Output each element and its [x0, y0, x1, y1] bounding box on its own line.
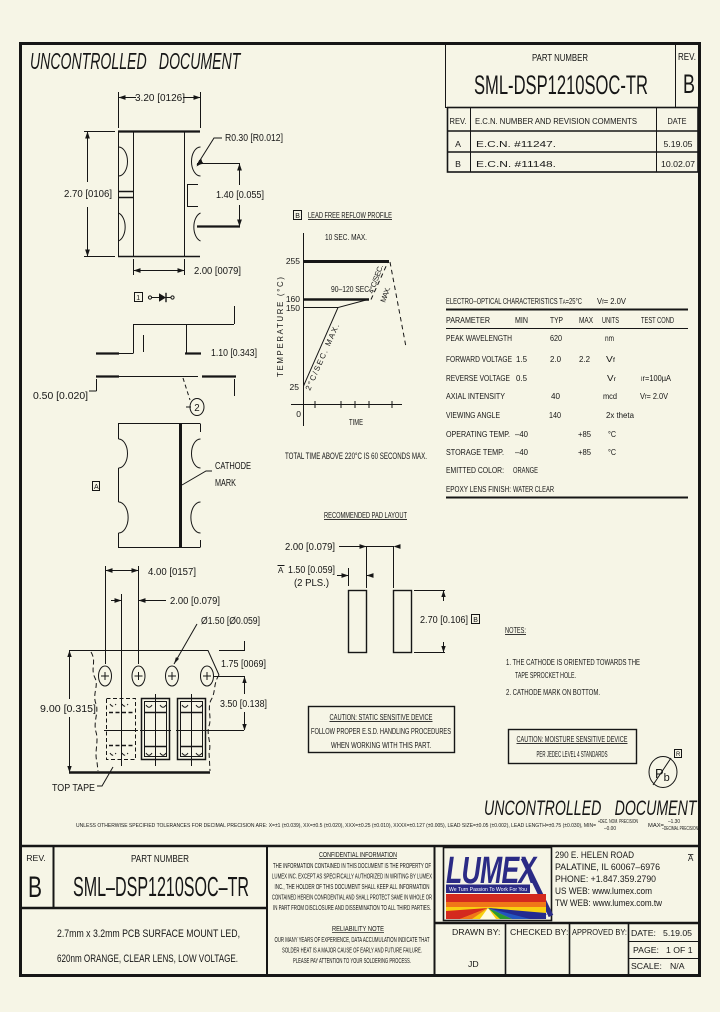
svg-text:THE INFORMATION CONTAINED IN T: THE INFORMATION CONTAINED IN THIS DOCUME… — [273, 863, 431, 870]
svg-text:5.19.05: 5.19.05 — [664, 139, 693, 149]
svg-text:1.50 [0.059]: 1.50 [0.059] — [288, 565, 335, 576]
svg-text:FORWARD VOLTAGE: FORWARD VOLTAGE — [446, 354, 512, 364]
svg-text:+85: +85 — [578, 447, 591, 457]
sprocket hole 1 — [99, 666, 112, 686]
svg-text:1 OF 1: 1 OF 1 — [666, 945, 693, 955]
svg-text:0.50 [0.020]: 0.50 [0.020] — [33, 391, 88, 402]
svg-text:UNLESS OTHERWISE SPECIFIED TOL: UNLESS OTHERWISE SPECIFIED TOLERANCES FO… — [76, 823, 597, 829]
svg-text:PART NUMBER: PART NUMBER — [532, 53, 588, 64]
svg-text:CONFIDENTIAL INFORMATION: CONFIDENTIAL INFORMATION — [319, 852, 397, 859]
svg-text:9.00 [0.315]: 9.00 [0.315] — [40, 704, 96, 715]
callout diameter 1.50 — [174, 616, 260, 664]
svg-text:VIEWING ANGLE: VIEWING ANGLE — [446, 410, 500, 420]
part number box — [446, 44, 699, 108]
svg-text:CHECKED BY:: CHECKED BY: — [510, 927, 568, 937]
svg-text:RELIABILITY NOTE: RELIABILITY NOTE — [332, 926, 384, 933]
electro-optical characteristics table — [446, 296, 688, 498]
dim 2.70 [0106] left — [64, 132, 115, 257]
tape top edge — [69, 651, 219, 676]
caution ESD box — [309, 707, 455, 753]
svg-text:1. THE CATHODE IS ORIENTED TOW: 1. THE CATHODE IS ORIENTED TOWARDS THE — [506, 657, 640, 667]
dim 1.40 [0.055] right — [197, 164, 264, 227]
svg-text:SCALE:: SCALE: — [631, 961, 662, 971]
svg-text:MARK: MARK — [215, 478, 236, 489]
svg-text:Vf: Vf — [606, 354, 615, 364]
reflow profile title — [294, 210, 393, 220]
svg-text:WATER CLEAR: WATER CLEAR — [513, 484, 554, 494]
svg-text:R: R — [676, 752, 681, 758]
svg-text:OPERATING TEMP.: OPERATING TEMP. — [446, 429, 510, 439]
svg-text:B: B — [455, 159, 461, 169]
svg-text:CATHODE: CATHODE — [215, 461, 251, 472]
right notch rect — [188, 185, 199, 207]
dim 2.00 [0.079] gap — [285, 542, 401, 588]
svg-text:TOTAL TIME ABOVE 220°C IS 60 S: TOTAL TIME ABOVE 220°C IS 60 SECONDS MAX… — [285, 451, 427, 461]
reflow chart temperature lines — [304, 262, 390, 308]
caution moisture box — [509, 730, 637, 764]
leader to balloon 2 — [183, 378, 204, 416]
svg-text:We Turn Passion To Work For Yo: We Turn Passion To Work For You — [449, 887, 527, 893]
confidential information block — [272, 852, 432, 965]
svg-text:2.7mm x 3.2mm PCB SURFACE MOUN: 2.7mm x 3.2mm PCB SURFACE MOUNT LED, — [57, 928, 240, 940]
svg-text:REV.: REV. — [450, 116, 467, 126]
svg-text:DATE:: DATE: — [631, 928, 656, 938]
svg-text:RECOMMENDED PAD LAYOUT: RECOMMENDED PAD LAYOUT — [324, 510, 407, 520]
svg-text:TAPE SPROCKET HOLE.: TAPE SPROCKET HOLE. — [515, 670, 576, 680]
svg-text:R0.30 [R0.012]: R0.30 [R0.012] — [225, 133, 283, 144]
polarity mark rectangle — [119, 192, 134, 198]
svg-text:2°C/SEC. MAX.: 2°C/SEC. MAX. — [304, 322, 342, 391]
tape torn right edge — [208, 675, 219, 771]
svg-text:E.C.N. NUMBER AND REVISION: E.C.N. NUMBER AND REVISION COMMENTS — [475, 116, 637, 126]
component 3 centerlines — [176, 694, 244, 766]
right terminal arcs — [192, 147, 201, 241]
svg-text:TEST COND: TEST COND — [641, 315, 674, 325]
axis labels — [276, 256, 363, 427]
tolerance note line — [76, 819, 698, 832]
svg-text:WHEN WORKING WITH THIS PART.: WHEN WORKING WITH THIS PART. — [331, 740, 431, 750]
svg-text:Pb: Pb — [655, 766, 670, 784]
svg-text:OUR MANY YEARS OF EXPERIENCE,: OUR MANY YEARS OF EXPERIENCE, DATA ACCUM… — [275, 937, 430, 944]
callout R0.30 [R0.012] — [197, 133, 284, 167]
svg-text:TYP: TYP — [550, 315, 563, 325]
svg-text:PHONE: +1.847.359.2790: PHONE: +1.847.359.2790 — [555, 874, 656, 885]
balloon 2 — [190, 399, 204, 416]
svg-text:NOTES:: NOTES: — [505, 625, 526, 635]
svg-text:A: A — [688, 854, 694, 863]
svg-text:255: 255 — [286, 256, 300, 266]
svg-text:PART NUMBER: PART NUMBER — [131, 854, 189, 865]
svg-text:CONTAINED HEREIN CONFIDENTIAL: CONTAINED HEREIN CONFIDENTIAL AND SHALL … — [272, 895, 432, 902]
cathode mark label — [182, 461, 251, 489]
top tape label — [52, 767, 113, 794]
svg-text:PER JEDEC LEVEL 4 STANDARDS: PER JEDEC LEVEL 4 STANDARDS — [537, 750, 608, 759]
datum box A left — [93, 482, 100, 492]
svg-text:25: 25 — [290, 382, 300, 392]
svg-text:10 SEC. MAX.: 10 SEC. MAX. — [325, 232, 367, 242]
svg-text:1.5: 1.5 — [516, 354, 527, 364]
svg-text:CAUTION: MOISTURE SENSITIVE DE: CAUTION: MOISTURE SENSITIVE DEVICE — [517, 734, 628, 744]
svg-text:PARAMETER: PARAMETER — [446, 315, 490, 325]
dim 4.00 [0157] — [106, 566, 197, 664]
dim 2.70 [0.106] B — [414, 591, 480, 653]
svg-text:1: 1 — [136, 295, 140, 302]
svg-text:2.00 [0.079]: 2.00 [0.079] — [170, 596, 220, 607]
svg-text:LUMEX INC. EXCEPT AS SPECIFIC: LUMEX INC. EXCEPT AS SPECIFICALLY AUTHOR… — [272, 874, 432, 881]
front (bottom) view body — [118, 424, 201, 548]
curve annotations — [304, 232, 393, 392]
svg-text:2.00 [0079]: 2.00 [0079] — [194, 266, 241, 277]
revision table — [448, 108, 699, 173]
sprocket hole 4 — [201, 666, 214, 686]
svg-text:0: 0 — [296, 409, 301, 419]
svg-text:AXIAL INTENSITY: AXIAL INTENSITY — [446, 391, 505, 401]
svg-text:2.2: 2.2 — [579, 354, 590, 364]
svg-text:1.40 [0.055]: 1.40 [0.055] — [216, 190, 264, 201]
svg-text:2.70 [0106]: 2.70 [0106] — [64, 189, 112, 200]
svg-text:PALATINE, IL 60067–6976: PALATINE, IL 60067–6976 — [555, 862, 660, 873]
svg-text:1.10 [0.343]: 1.10 [0.343] — [211, 348, 257, 359]
drawn/checked/approved row — [452, 927, 693, 971]
dim 3.20 [0126] — [119, 92, 201, 128]
component 2 — [142, 699, 170, 760]
package top view body — [118, 131, 201, 257]
svg-text:2x theta: 2x theta — [606, 410, 634, 420]
svg-text:JD: JD — [468, 959, 479, 969]
svg-text:0.5: 0.5 — [516, 373, 527, 383]
svg-text:MIN: MIN — [515, 315, 528, 325]
svg-text:nm: nm — [605, 333, 614, 343]
svg-text:150: 150 — [286, 303, 300, 313]
svg-text:E.C.N. #11247.: E.C.N. #11247. — [476, 139, 556, 149]
svg-text:(2 PLS.): (2 PLS.) — [294, 578, 329, 589]
reflow chart axes — [291, 233, 402, 426]
svg-text:mcd: mcd — [603, 391, 617, 401]
datum box symbol near diode — [135, 293, 143, 303]
svg-text:SML–DSP1210SOC–TR: SML–DSP1210SOC–TR — [73, 871, 249, 902]
svg-text:CAUTION: STATIC SENSITIVE DEVI: CAUTION: STATIC SENSITIVE DEVICE — [330, 712, 433, 722]
svg-text:A: A — [278, 566, 284, 575]
Pb-free symbol — [649, 750, 682, 788]
svg-text:EPOXY LENS FINISH:: EPOXY LENS FINISH: — [446, 484, 511, 494]
svg-text:–DECIMAL PRECISION: –DECIMAL PRECISION — [662, 826, 698, 832]
title block borders — [21, 846, 699, 974]
svg-text:Vr: Vr — [607, 373, 617, 383]
svg-text:US WEB: www.lumex.com: US WEB: www.lumex.com — [555, 886, 652, 897]
svg-text:N/A: N/A — [670, 961, 685, 971]
polarity diode symbol — [148, 293, 174, 302]
svg-text:290 E. HELEN ROAD: 290 E. HELEN ROAD — [555, 850, 634, 861]
svg-text:+DEC. NOM. PRECISION: +DEC. NOM. PRECISION — [598, 819, 638, 825]
svg-text:°C: °C — [608, 447, 616, 457]
dim 9.00 [0.315] — [40, 651, 96, 773]
svg-text:SML-DSP1210SOC-TR: SML-DSP1210SOC-TR — [474, 70, 648, 100]
svg-text:DATE: DATE — [668, 116, 687, 126]
dim 1.10 [0.343] — [211, 306, 257, 396]
component 1 in pocket (hidden, dashed) — [107, 699, 136, 760]
svg-text:TEMPERATURE (°C): TEMPERATURE (°C) — [276, 277, 285, 377]
svg-text:140: 140 — [549, 410, 561, 420]
svg-text:TW WEB: www.lumex.com.tw: TW WEB: www.lumex.com.tw — [555, 898, 662, 909]
sprocket hole 3 — [166, 666, 179, 686]
tape torn left edge — [91, 652, 98, 771]
svg-text:A: A — [455, 139, 461, 149]
svg-text:IN PART FROM DISCLOSURE AND DI: IN PART FROM DISCLOSURE AND DISSEMINATIO… — [273, 905, 431, 912]
svg-text:UNITS: UNITS — [602, 315, 619, 325]
svg-text:ORANGE: ORANGE — [513, 465, 538, 475]
svg-text:3.20 [0126]: 3.20 [0126] — [135, 93, 185, 104]
svg-text:FOLLOW PROPER E.S.D. HANDLING: FOLLOW PROPER E.S.D. HANDLING PROCEDURES — [311, 726, 451, 736]
svg-text:2: 2 — [194, 403, 199, 414]
dim 1.75 [0069] — [214, 641, 266, 686]
svg-text:B: B — [28, 871, 42, 904]
component 2 centerlines — [140, 694, 171, 766]
side view profile — [96, 325, 236, 377]
svg-text:APPROVED BY:: APPROVED BY: — [572, 927, 627, 937]
svg-text:REVERSE VOLTAGE: REVERSE VOLTAGE — [446, 373, 510, 383]
svg-text:10.02.07: 10.02.07 — [661, 159, 695, 169]
svg-text:5.19.05: 5.19.05 — [663, 928, 692, 938]
svg-text:STORAGE TEMP.: STORAGE TEMP. — [446, 447, 504, 457]
svg-text:–40: –40 — [515, 429, 528, 439]
svg-text:4.00 [0157]: 4.00 [0157] — [148, 567, 196, 578]
dim 2.00 [0.079] tape — [111, 594, 220, 694]
svg-text:TOP TAPE: TOP TAPE — [52, 782, 95, 794]
pad left — [349, 591, 367, 653]
svg-text:620: 620 — [550, 333, 562, 343]
svg-text:°C: °C — [608, 429, 616, 439]
svg-text:–0.00: –0.00 — [604, 826, 616, 832]
component 3 — [178, 699, 206, 760]
svg-text:Ø1.50 [Ø0.059]: Ø1.50 [Ø0.059] — [201, 616, 260, 627]
svg-text:PEAK WAVELENGTH: PEAK WAVELENGTH — [446, 333, 512, 343]
svg-text:INC., THE HOLDER OF THIS DOCUM: INC., THE HOLDER OF THIS DOCUMENT SHALL … — [275, 884, 430, 891]
svg-text:Vf= 2.0V: Vf= 2.0V — [597, 296, 626, 306]
svg-text:2.00 [0.079]: 2.00 [0.079] — [285, 542, 335, 553]
svg-text:40: 40 — [551, 391, 560, 401]
svg-text:MAX.: MAX. — [378, 286, 392, 304]
dim 3.50 [0.138] — [220, 677, 267, 731]
dim 0.50 [0.020] — [33, 335, 144, 402]
pad right — [394, 591, 412, 653]
svg-text:PAGE:: PAGE: — [633, 945, 659, 955]
svg-text:90–120 SEC.: 90–120 SEC. — [331, 284, 371, 294]
svg-text:3.50 [0.138]: 3.50 [0.138] — [220, 699, 267, 710]
reflow profile curve — [304, 262, 407, 386]
svg-text:2.0: 2.0 — [550, 354, 561, 364]
svg-text:A: A — [94, 484, 99, 491]
left notch arcs — [119, 147, 128, 241]
svg-text:620nm ORANGE, CLEAR LENS, LOW: 620nm ORANGE, CLEAR LENS, LOW VOLTAGE. — [57, 953, 238, 965]
svg-text:UNCONTROLLED DOCUMENT: UNCONTROLLED DOCUMENT — [30, 48, 241, 75]
svg-text:TIME: TIME — [349, 417, 363, 427]
svg-text:2.70 [0.106]: 2.70 [0.106] — [420, 615, 468, 626]
svg-text:+85: +85 — [578, 429, 591, 439]
svg-text:ELECTRO–OPTICAL CHARACTERISTIC: ELECTRO–OPTICAL CHARACTERISTICS TA=25°C — [446, 296, 582, 306]
svg-text:MAX: MAX — [579, 315, 593, 325]
svg-text:REV.: REV. — [678, 52, 696, 63]
svg-text:2. CATHODE MARK ON BOTTOM.: 2. CATHODE MARK ON BOTTOM. — [506, 687, 600, 697]
svg-text:PLEASE PAY ATTENTION TO YOUR S: PLEASE PAY ATTENTION TO YOUR SOLDERING P… — [293, 958, 411, 965]
svg-text:–1.30: –1.30 — [668, 819, 680, 825]
svg-text:B: B — [473, 617, 478, 624]
svg-text:DRAWN BY:: DRAWN BY: — [452, 927, 500, 937]
cathode mark bar — [179, 424, 182, 548]
component 1 centerlines — [104, 694, 138, 766]
tape bottom edge — [69, 771, 210, 773]
svg-text:SOLDER HEAT IS A MAJOR CAUSE O: SOLDER HEAT IS A MAJOR CAUSE OF EARLY AN… — [282, 948, 422, 955]
svg-text:B: B — [683, 69, 695, 99]
svg-text:UNCONTROLLED DOCUMENT: UNCONTROLLED DOCUMENT — [484, 796, 698, 820]
svg-text:REV.: REV. — [26, 853, 45, 863]
svg-text:LEAD FREE REFLOW PROFILE: LEAD FREE REFLOW PROFILE — [308, 210, 392, 220]
svg-text:B: B — [295, 213, 300, 220]
address block — [555, 850, 694, 909]
dim 1.50 [0.059] (2 PLS.) — [278, 565, 374, 589]
dim 2.00 [0079] bottom — [134, 259, 242, 277]
svg-text:EMITTED COLOR:: EMITTED COLOR: — [446, 465, 504, 475]
svg-text:–40: –40 — [515, 447, 528, 457]
svg-text:Vf= 2.0V: Vf= 2.0V — [640, 391, 668, 401]
lumex logo — [444, 848, 552, 921]
sprocket hole 2 — [132, 666, 145, 686]
svg-text:INC: INC — [538, 914, 547, 920]
svg-text:E.C.N. #11148.: E.C.N. #11148. — [476, 159, 556, 169]
svg-text:Ir=100µA: Ir=100µA — [641, 373, 671, 383]
svg-text:1.75 [0069]: 1.75 [0069] — [221, 659, 266, 670]
